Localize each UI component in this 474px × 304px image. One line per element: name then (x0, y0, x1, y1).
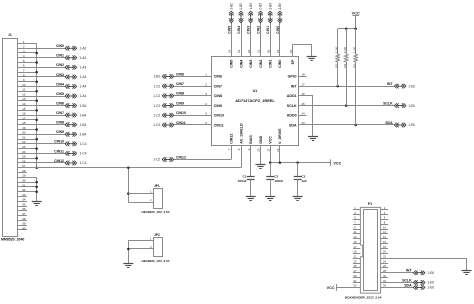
svg-text:CIN0: CIN0 (278, 60, 282, 68)
ground below C1 (246, 196, 256, 198)
svg-text:INT: INT (387, 82, 394, 86)
off-page connector CIN4 (J1) (65, 84, 77, 89)
svg-text:19: 19 (276, 49, 280, 53)
svg-text:CIN11: CIN11 (54, 149, 64, 153)
svg-text:1-E6: 1-E6 (408, 104, 415, 108)
op-amp/IC U1 AD7147ACPZ_1REEL body (212, 57, 299, 146)
svg-text:CIN7: CIN7 (56, 111, 64, 115)
svg-text:J1: J1 (8, 33, 12, 37)
resistor R1 2.2K (334, 47, 339, 68)
J1 pin 10 (17, 83, 65, 87)
resistor R2 2.2K (343, 47, 348, 68)
wire EP to ground (293, 44, 312, 56)
off-page connector CIN10 (into U1) (162, 113, 174, 118)
off-page connector CIN7 (into U1) (162, 84, 174, 89)
svg-text:30: 30 (22, 179, 26, 183)
U1 pin 25 EP (exposed pad) (289, 44, 295, 64)
svg-text:20: 20 (266, 49, 270, 53)
svg-text:1-E6: 1-E6 (427, 271, 434, 275)
P1 pin 19 (353, 250, 361, 254)
off-page connector CIN11 (J1) (65, 151, 77, 156)
svg-text:2: 2 (23, 45, 25, 49)
junction R3-SDA (354, 124, 357, 127)
P1 pin 4 (381, 211, 389, 215)
svg-text:39: 39 (22, 222, 26, 226)
svg-text:CIN2: CIN2 (257, 26, 261, 34)
svg-text:1-A2: 1-A2 (80, 56, 87, 60)
svg-text:CIN0: CIN0 (56, 44, 64, 48)
ground below JP2 (123, 263, 133, 265)
P1 pin 34 (381, 284, 414, 288)
wire R2 bottom to SCLK (346, 62, 348, 106)
svg-text:1-C2: 1-C2 (153, 104, 160, 108)
off-page connector CIN12 (into U1) (162, 157, 174, 162)
svg-text:3: 3 (23, 49, 25, 53)
P1 pin 32 (381, 279, 414, 283)
svg-text:28: 28 (22, 169, 26, 173)
header JP1 (150, 184, 162, 209)
U1 pin 1 CIN6 (left) (174, 73, 222, 79)
off-page connector CIN8 (J1) (65, 122, 77, 127)
svg-text:VCC: VCC (352, 11, 360, 15)
U1 pin 17 INT (right) (291, 82, 305, 88)
off-page connector CIN0 (J1) (65, 46, 77, 51)
svg-text:18: 18 (22, 121, 26, 125)
svg-text:CIN8: CIN8 (176, 92, 184, 96)
J1 pin 1 (17, 40, 36, 44)
capacitor C2 100nF (266, 175, 283, 183)
svg-text:CIN5: CIN5 (56, 92, 64, 96)
wire R1 bottom to INT (337, 62, 339, 86)
U1 pin 24 CIN5 (top) (228, 22, 234, 68)
off-page connector CIN2 (top) (258, 11, 263, 23)
off-page connector CIN10 (J1) (65, 142, 77, 147)
wire SDA from U1 pin13 (299, 124, 395, 126)
J1 pin 39 (17, 222, 27, 226)
wire C1 to ground (250, 179, 252, 197)
P1 pin 12 (381, 230, 389, 234)
connector P1 body (360, 202, 380, 293)
P1 pin 13 (353, 235, 361, 239)
wire P1 pin22 to ground (466, 258, 468, 270)
wire R3 bottom to SDA (355, 62, 357, 125)
J1 pin 14 (17, 102, 65, 106)
wire C3 to ground (297, 179, 299, 197)
svg-text:CIN12: CIN12 (54, 159, 64, 163)
junction JP2 pin2 tap (127, 248, 130, 251)
svg-text:2.2K: 2.2K (334, 47, 338, 53)
ground at EP (307, 56, 317, 58)
U1 pin 13 SDA (right) (289, 121, 305, 127)
svg-text:CIN3: CIN3 (247, 26, 251, 34)
svg-text:CIN2: CIN2 (56, 63, 64, 67)
svg-text:CIN8: CIN8 (214, 94, 222, 98)
power flag VCC (rail) (331, 159, 342, 166)
svg-text:16: 16 (22, 112, 26, 116)
wire SCLK from U1 pin15 (299, 105, 395, 107)
P1 pin 29 (353, 274, 361, 278)
svg-text:100nF: 100nF (274, 179, 283, 183)
svg-text:22: 22 (22, 140, 26, 144)
ground below C3 (293, 196, 303, 198)
J1 pin 22 (17, 140, 65, 144)
wire AC_SHIELD rail from J1 pin27 to U1 pin8 (17, 167, 241, 169)
svg-text:1-B2: 1-B2 (230, 3, 234, 10)
U1 pin 14 ADD0 (right) (287, 112, 305, 118)
svg-text:1-B3: 1-B3 (259, 3, 263, 10)
P1 pin 26 (381, 264, 389, 268)
svg-text:21: 21 (257, 49, 261, 53)
capacitor C3 1uF (294, 175, 307, 183)
off-page connector CIN11 (into U1) (162, 123, 174, 128)
off-page connector SDA (394, 123, 406, 128)
svg-text:JP2: JP2 (154, 233, 160, 237)
svg-text:SCLK: SCLK (383, 102, 393, 106)
svg-text:1-B2: 1-B2 (153, 75, 160, 79)
svg-text:1-A4: 1-A4 (80, 85, 87, 89)
J1 pin 29 (17, 174, 36, 178)
svg-text:CIN1: CIN1 (266, 26, 270, 34)
wire JP2 to ground (128, 240, 130, 263)
svg-text:CIN7: CIN7 (176, 82, 184, 86)
svg-text:ADD0: ADD0 (287, 114, 297, 118)
junction VCC pin11 (269, 161, 272, 164)
svg-text:1-C2: 1-C2 (153, 158, 160, 162)
J1 pin 5 (17, 59, 36, 63)
U1 pin 11 VCC (bottom) (266, 136, 272, 152)
svg-text:14: 14 (22, 102, 26, 106)
J1 pin 6 (17, 64, 65, 68)
off-page connector CIN1 (top) (268, 11, 273, 23)
off-page connector SCLK (P1) (413, 280, 425, 285)
svg-text:8: 8 (23, 73, 25, 77)
svg-text:SCLK: SCLK (402, 278, 412, 282)
svg-text:34: 34 (22, 198, 26, 202)
junction R2 top (345, 28, 348, 31)
svg-text:CIN10: CIN10 (54, 140, 64, 144)
off-page connector INT (P1) (413, 271, 425, 276)
U1 pin 4 CIN9 (left) (174, 102, 222, 108)
P1 pin 31 (353, 279, 361, 283)
J1 pin 2 (17, 45, 65, 49)
J1 pin 9 (17, 78, 36, 82)
svg-text:1-B3: 1-B3 (278, 3, 282, 10)
P1 pin 11 (353, 230, 361, 234)
wire INT from U1 pin17 (299, 86, 395, 88)
svg-text:1-C4: 1-C4 (80, 142, 87, 146)
svg-text:AC_SHIELD: AC_SHIELD (239, 123, 243, 144)
svg-text:2.2K: 2.2K (343, 47, 347, 53)
svg-text:29: 29 (22, 174, 26, 178)
svg-text:40: 40 (22, 226, 26, 230)
off-page connector CIN3 (J1) (65, 75, 77, 80)
off-page connector CIN12 (J1) (65, 161, 77, 166)
svg-text:100nF: 100nF (238, 179, 247, 183)
svg-text:1-C4: 1-C4 (80, 152, 87, 156)
J1 ground bus wire (pins 29-32) (36, 177, 38, 201)
off-page connector CIN3 (top) (248, 11, 253, 23)
wire shield rail down to JP1 (128, 168, 130, 202)
svg-text:CIN3: CIN3 (56, 73, 64, 77)
svg-text:CIN9: CIN9 (176, 102, 184, 106)
capacitor C1 100nF (238, 175, 255, 183)
connector J1 body (3, 33, 18, 237)
J1 pin 7 (17, 69, 36, 73)
P1 pin 15 (353, 240, 361, 244)
svg-text:HEADER_1X2_2.54: HEADER_1X2_2.54 (142, 259, 170, 263)
wire CIN12 from off-page to U1 pin7 (174, 146, 232, 160)
svg-text:CIN8: CIN8 (56, 121, 64, 125)
svg-text:31: 31 (22, 183, 26, 187)
header JP2 (150, 233, 162, 257)
U1 pin 16 ADD1 (right) (287, 92, 305, 98)
svg-text:19: 19 (22, 126, 26, 130)
svg-text:9: 9 (23, 78, 25, 82)
svg-text:20: 20 (22, 131, 26, 135)
svg-text:CIN9: CIN9 (214, 104, 222, 108)
svg-text:35: 35 (22, 202, 26, 206)
J1 pin 33 (17, 193, 27, 197)
svg-text:25: 25 (22, 155, 26, 159)
svg-text:SDA: SDA (385, 121, 393, 125)
U1 pin 3 CIN8 (left) (174, 92, 222, 98)
ground at U1 pin10 (256, 164, 266, 166)
off-page connector CIN2 (J1) (65, 65, 77, 70)
junction R1-INT (336, 85, 339, 88)
svg-text:13: 13 (22, 97, 26, 101)
wire U1 ADD0 stub (299, 115, 307, 117)
svg-text:VCC: VCC (333, 162, 341, 166)
U1 pin 21 CIN2 (top) (257, 22, 263, 68)
U1 pin 10 GND (bottom) (257, 135, 263, 151)
J1 pin 40 (17, 226, 27, 230)
U1 pin 18 GPIO (right) (288, 73, 305, 79)
svg-text:SDA: SDA (404, 283, 412, 287)
J1 pin 25 (17, 155, 36, 159)
J1 pin 23 (17, 145, 36, 149)
svg-text:11: 11 (266, 148, 270, 151)
svg-text:1-B3: 1-B3 (268, 3, 272, 10)
U1 pin 19 CIN0 (top) (276, 22, 282, 68)
off-page connector CIN5 (top) (229, 11, 234, 23)
off-page connector INT (394, 84, 406, 89)
svg-text:CIN7: CIN7 (214, 84, 222, 88)
J1 pin 4 (17, 54, 65, 58)
off-page connector CIN5 (J1) (65, 94, 77, 99)
J1 pin 24 (17, 150, 65, 154)
off-page connector CIN7 (J1) (65, 113, 77, 118)
svg-text:CIN11: CIN11 (214, 123, 224, 127)
wire R1 top (337, 29, 339, 54)
U1 pin 22 CIN3 (top) (247, 22, 253, 68)
svg-text:INT: INT (406, 269, 413, 273)
U1 pin 8 AC_SHIELD (bottom) (237, 123, 243, 150)
junction shield rail / JP1 (127, 167, 130, 170)
wire R3 top (355, 29, 357, 54)
wire VCC to pull-up tops (338, 28, 356, 30)
ground at P1 pin22 (462, 270, 472, 272)
wire U1 GPIO stub (299, 76, 307, 78)
wire U1 pin9 BIAS down to C1 (250, 146, 252, 177)
svg-text:24: 24 (228, 49, 232, 53)
svg-text:U1: U1 (253, 89, 258, 93)
P1 pin 18 (381, 245, 389, 249)
svg-text:CIN5: CIN5 (227, 26, 231, 34)
J1 pin 31 (17, 183, 36, 187)
svg-text:CIN6: CIN6 (214, 75, 222, 79)
J1 pin 37 (17, 212, 27, 216)
svg-text:SCLK: SCLK (287, 104, 297, 108)
J1 shield bus wire (odd pins) (36, 43, 38, 167)
svg-text:32: 32 (22, 188, 26, 192)
junction C3 tap (296, 161, 299, 164)
svg-text:2.2K: 2.2K (352, 47, 356, 53)
J1 pin 21 (17, 136, 36, 140)
J1 pin 15 (17, 107, 36, 111)
svg-text:1-B2: 1-B2 (239, 3, 243, 10)
U1 pin 15 SCLK (right) (287, 102, 305, 108)
J1 pin 30 (17, 179, 36, 183)
svg-text:1: 1 (23, 40, 25, 44)
svg-text:38: 38 (22, 217, 26, 221)
svg-text:CIN5: CIN5 (230, 60, 234, 68)
svg-text:CIN10: CIN10 (176, 111, 186, 115)
off-page connector CIN6 (into U1) (162, 74, 174, 79)
P1 pin 3 (353, 211, 361, 215)
P1 pin 6 (381, 216, 389, 220)
svg-text:1-A3: 1-A3 (80, 75, 87, 79)
svg-text:CIN10: CIN10 (214, 114, 224, 118)
J1 pin 11 (17, 88, 36, 92)
J1 pin 17 (17, 116, 36, 120)
svg-text:JP1: JP1 (154, 184, 160, 188)
P1 pin 23 (353, 259, 361, 263)
svg-text:MM8520_2040: MM8520_2040 (1, 238, 24, 242)
svg-text:P1: P1 (368, 202, 372, 206)
svg-text:CIN0: CIN0 (276, 26, 280, 34)
svg-text:1-B4: 1-B4 (80, 133, 87, 137)
svg-text:1-C4: 1-C4 (80, 161, 87, 165)
wire U1 pin11 VCC down (270, 146, 272, 163)
wire rail down to C3 (297, 163, 299, 177)
wire JP2 pin2 (128, 248, 153, 250)
wire VCC rail down to C2 (270, 163, 272, 177)
J1 pin 16 (17, 112, 65, 116)
U1 pin 9 BIAS (bottom) (247, 135, 253, 151)
svg-text:25: 25 (289, 49, 293, 53)
svg-text:VCC: VCC (269, 136, 273, 144)
svg-text:1-B4: 1-B4 (80, 113, 87, 117)
svg-text:1-E6: 1-E6 (408, 84, 415, 88)
svg-text:1-E6: 1-E6 (408, 123, 415, 127)
P1 pin 5 (353, 216, 361, 220)
svg-text:10: 10 (22, 83, 26, 87)
wire C2 to ground (270, 179, 272, 197)
P1 pin 1 (353, 206, 361, 210)
wire U1 pin8 AC_SHIELD down to shield rail (241, 146, 243, 168)
wire JP1 pin1 (128, 193, 153, 195)
U1 pin 7 CIN12 (bottom) (228, 134, 234, 151)
J1 pin 8 (17, 73, 65, 77)
P1 pin 14 (381, 235, 389, 239)
wire ADD1 from U1 pin16 to ground (299, 96, 313, 137)
svg-text:1-C2: 1-C2 (153, 123, 160, 127)
svg-text:17: 17 (22, 116, 26, 120)
power flag VCC (pull-ups) (352, 11, 360, 28)
J1 pin 26 (17, 159, 65, 163)
P1 pin 7 (353, 221, 361, 225)
svg-text:1-A3: 1-A3 (80, 66, 87, 70)
svg-text:CIN6: CIN6 (56, 102, 64, 106)
svg-text:CIN4: CIN4 (56, 82, 64, 86)
svg-text:37: 37 (22, 212, 26, 216)
wire JP2 pin1 (128, 240, 153, 242)
P1 pin 16 (381, 240, 389, 244)
svg-text:4: 4 (23, 54, 25, 58)
J1 pin 38 (17, 217, 27, 221)
U1 pin 2 CIN7 (left) (174, 82, 222, 88)
off-page connector SCLK (394, 103, 406, 108)
svg-text:6: 6 (23, 64, 25, 68)
P1 pin 8 (381, 221, 389, 225)
U1 pin 12 V_DRIVE (bottom) (276, 128, 282, 152)
ground at ADD1 (308, 136, 318, 138)
svg-text:CIN3: CIN3 (249, 60, 253, 68)
junction R3 top (354, 28, 357, 31)
P1 pin 28 (381, 269, 414, 273)
svg-text:23: 23 (237, 49, 241, 53)
svg-text:1-E6: 1-E6 (427, 286, 434, 290)
off-page connector CIN4 (top) (239, 11, 244, 23)
junction R2-SCLK (345, 104, 348, 107)
J1 ground bus junctions (35, 181, 38, 193)
U1 pin 20 CIN1 (top) (266, 22, 272, 68)
off-page connector CIN8 (into U1) (162, 94, 174, 99)
P1 pin 30 (381, 274, 389, 278)
svg-text:1-C2: 1-C2 (153, 84, 160, 88)
svg-text:11: 11 (22, 88, 25, 92)
ground below J1 bus (32, 201, 42, 203)
svg-text:1-B4: 1-B4 (80, 123, 87, 127)
svg-text:CIN1: CIN1 (269, 60, 273, 68)
svg-text:CIN9: CIN9 (56, 130, 64, 134)
svg-text:BIAS: BIAS (249, 135, 253, 144)
J1 pin 20 (17, 131, 65, 135)
off-page connector CIN9 (J1) (65, 132, 77, 137)
wire R2 top (346, 29, 348, 54)
svg-text:SDA: SDA (289, 123, 297, 127)
svg-text:5: 5 (23, 59, 25, 63)
svg-text:CIN12: CIN12 (230, 134, 234, 144)
svg-text:HEADER_1X2_2.54: HEADER_1X2_2.54 (142, 210, 170, 214)
J1 pin 34 (17, 198, 27, 202)
svg-text:GPIO: GPIO (288, 75, 297, 79)
svg-text:CIN1: CIN1 (56, 54, 64, 58)
P1 pin 22 (381, 255, 467, 259)
svg-text:CIN4: CIN4 (237, 26, 241, 34)
wire JP1 pin2 (128, 202, 153, 204)
U1 pin 6 CIN11 (left) (174, 121, 224, 127)
svg-text:12: 12 (22, 92, 26, 96)
svg-text:17: 17 (301, 82, 305, 86)
P1 pin 17 (353, 245, 361, 249)
P1 pin 27 (353, 269, 361, 273)
J1 pin 35 (17, 202, 27, 206)
junction JP1 pin1 tap (127, 192, 130, 195)
svg-text:INT: INT (291, 84, 298, 88)
U1 pin 5 CIN10 (left) (174, 112, 224, 118)
wire VCC rail (270, 162, 331, 164)
